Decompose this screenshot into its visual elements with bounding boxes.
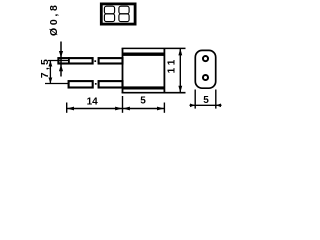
leader line for Ø0,8: [60, 42, 62, 77]
end view width dimension: extension lines: [194, 90, 196, 109]
14 right arrow: [115, 107, 122, 111]
svg-text:7,5: 7,5: [39, 57, 51, 78]
extension line at body left edge: [122, 96, 124, 113]
digit 8 right: [119, 6, 129, 21]
body top edge + 11 extension: [122, 47, 186, 49]
component body side view: left edge: [122, 48, 124, 93]
end view hole bottom: [203, 75, 208, 80]
11 arrow up: [178, 48, 182, 55]
top lead break dot: [94, 60, 96, 62]
top lead segment 2: [99, 58, 123, 63]
svg-text:Ø0,8: Ø0,8: [48, 2, 60, 36]
5 right arrow: [157, 107, 164, 111]
top lead segment 1: [58, 58, 92, 63]
arrow down tip at bottom lead center: [49, 78, 53, 84]
dimension 14 and 5: shared dimension line: [66, 108, 165, 110]
5 left arrow: [123, 107, 130, 111]
leader arrow up at lead bottom edge: [59, 65, 63, 72]
svg-text:14: 14: [87, 96, 99, 107]
bottom lead segment 2: [99, 81, 123, 87]
body bottom edge + 11 extension: [122, 92, 186, 94]
svg-text:5: 5: [203, 95, 209, 106]
top lead crimp cap: [68, 57, 70, 65]
end view right arrow (outside): [216, 104, 221, 108]
end view outline: [195, 50, 215, 88]
body bottom internal band: [123, 86, 165, 89]
dimension 11 line: [179, 48, 181, 93]
bottom lead break dot: [95, 83, 97, 85]
marking box outline: [101, 4, 135, 24]
extension line at bottom lead tip: [66, 103, 68, 113]
body right edge: [163, 48, 165, 93]
end view hole top: [203, 56, 208, 61]
svg-text:11: 11: [167, 56, 178, 73]
arrow up tip at top lead center: [49, 61, 53, 67]
svg-text:5: 5: [140, 95, 146, 106]
digit 8 left: [104, 6, 114, 21]
end view left arrow (outside): [190, 104, 195, 108]
extension line top lead centerline: [48, 60, 69, 62]
14 left arrow: [67, 107, 74, 111]
lead spacing dimension line 7,5: [49, 61, 51, 84]
extension line bottom lead centerline: [45, 83, 68, 85]
bottom lead segment 1: [69, 81, 93, 87]
11 arrow down: [178, 86, 182, 93]
leader arrow down at lead top edge: [59, 51, 63, 58]
end view dimension line: [190, 104, 222, 106]
body top internal band: [123, 53, 165, 56]
extension line at body right edge: [163, 103, 165, 113]
